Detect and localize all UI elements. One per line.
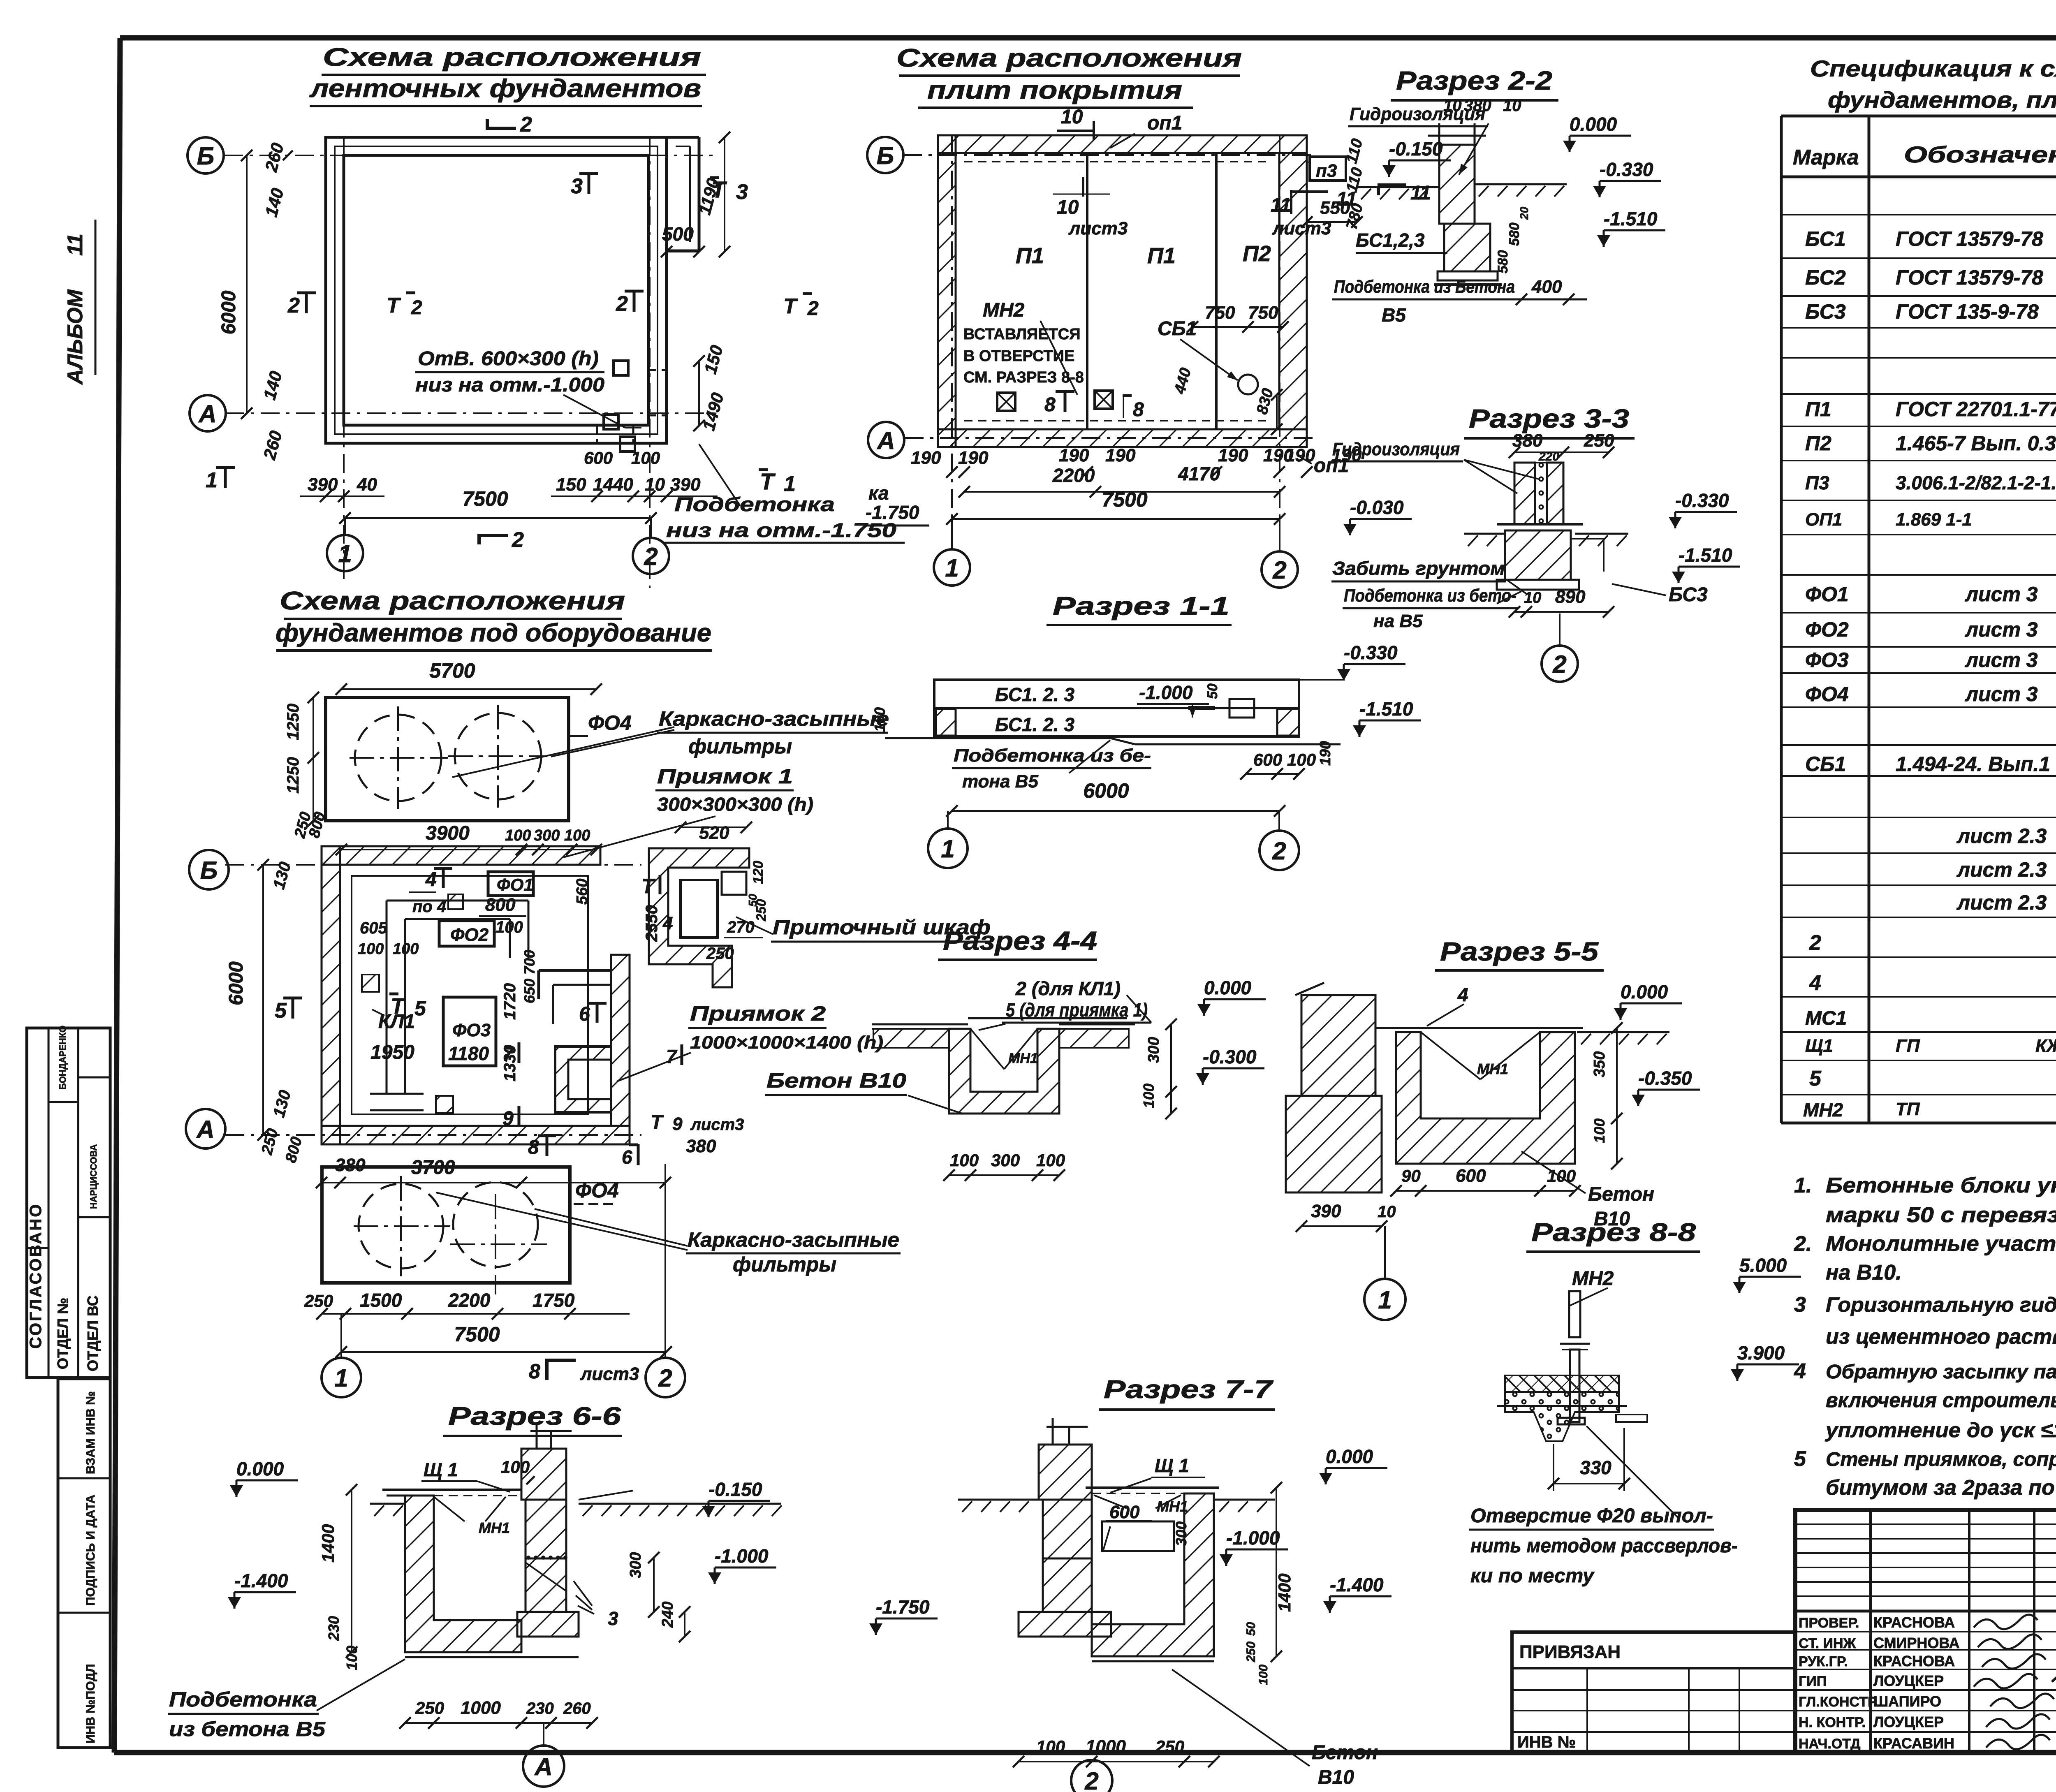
plan3 axis lines [225,865,641,1135]
svg-text:300×300×300 (h): 300×300×300 (h) [657,794,813,815]
section7-7 beton label [1172,1669,1378,1788]
svg-text:1500: 1500 [360,1290,402,1311]
section8-8 slab [1497,1375,1647,1441]
svg-text:П1: П1 [1805,398,1831,421]
section8-8 bolt [1558,1291,1590,1424]
svg-text:Бетон: Бетон [1312,1742,1378,1764]
plan3 top dims [336,822,602,855]
svg-text:1: 1 [945,554,959,582]
svg-text:Т: Т [391,994,406,1019]
svg-text:Разрез 7-7: Разрез 7-7 [1104,1375,1273,1404]
svg-text:ФО4: ФО4 [1805,683,1849,706]
svg-text:1250: 1250 [284,757,302,794]
plan2 mh2 note [963,299,1084,395]
svg-text:ШАПИРО: ШАПИРО [1873,1693,1941,1710]
svg-text:КРАСАВИН: КРАСАВИН [1873,1735,1954,1752]
title: section 3-3 [1464,404,1635,438]
plan3 inner dims [358,879,591,1081]
svg-text:0.000: 0.000 [1570,113,1617,135]
svg-text:9: 9 [672,1114,683,1134]
plan3 kl1 label [372,1009,415,1033]
svg-text:СТ. ИНЖ: СТ. ИНЖ [1799,1636,1856,1651]
spec rows slabs [1805,363,2056,530]
svg-text:250: 250 [706,945,734,963]
svg-text:400: 400 [1531,277,1562,297]
svg-text:Бетон: Бетон [1588,1183,1654,1205]
svg-text:ФО1: ФО1 [497,875,533,894]
svg-text:оп1: оп1 [1147,112,1182,134]
filter label lower [436,1192,901,1276]
svg-text:по 4: по 4 [412,898,446,916]
svg-text:Подбетонка: Подбетонка [169,1688,317,1711]
plan2 dims 750 750 [1187,303,1289,333]
svg-text:10: 10 [1443,97,1462,115]
svg-text:100: 100 [1140,1084,1157,1108]
svg-text:7: 7 [502,1044,514,1065]
svg-text:Бетон В10: Бетон В10 [766,1069,906,1092]
axis circle 1 plan1 [327,535,363,571]
section1-1 podbetonka note [952,740,1151,792]
section3-3 levels [1343,490,1740,583]
svg-text:1400: 1400 [1275,1574,1294,1612]
svg-text:Т: Т [711,176,727,202]
svg-text:лист3: лист3 [1272,218,1331,238]
plan2 slab joints [956,153,1279,429]
svg-text:БС2: БС2 [1805,266,1846,289]
svg-text:А: А [196,1116,214,1143]
svg-text:11: 11 [1410,182,1431,204]
plan3 bottom dims [316,1135,716,1188]
section2-2 podbetonka [1332,277,1587,326]
svg-text:300: 300 [1145,1037,1162,1063]
album label [63,220,95,385]
svg-text:плит покрытия: плит покрытия [927,76,1182,104]
spec table grid [1781,116,2056,1123]
svg-text:250: 250 [1584,431,1614,451]
svg-text:Т: Т [387,294,401,317]
svg-text:лист3: лист3 [580,1364,639,1384]
svg-text:Стены приямков, соприкасающиес: Стены приямков, соприкасающиеся с грунто… [1826,1449,2056,1470]
svg-text:ГОСТ 22701.1-77: ГОСТ 22701.1-77 [1896,398,2056,421]
svg-text:Подбетонка из бе-: Подбетонка из бе- [954,746,1151,766]
svg-text:2.: 2. [1794,1232,1812,1256]
svg-text:100: 100 [343,1646,360,1670]
section2-2 column [1428,123,1502,285]
svg-text:Забить грунтом: Забить грунтом [1332,558,1505,579]
section5-5 dims [1296,1166,1581,1232]
svg-text:ФО3: ФО3 [452,1020,491,1040]
plan3 channel KL1 [370,901,528,1110]
svg-text:-0.150: -0.150 [1389,138,1443,160]
section8-8 note [1469,1426,1738,1587]
plan2 note ka [864,482,929,526]
svg-text:А: А [198,400,216,428]
svg-text:Горизонтальную гидроизоляцию с: Горизонтальную гидроизоляцию стен выполн… [1826,1293,2056,1316]
title: scheme of roof slabs [896,44,1242,108]
section5-5 wall column [1286,983,1382,1192]
plan1 dims 140 260 bottom [259,369,286,462]
svg-text:КЖИ Щ1: КЖИ Щ1 [2035,1036,2056,1056]
svg-text:600: 600 [1109,1502,1140,1522]
svg-text:ленточных фундаментов: ленточных фундаментов [309,74,701,103]
section4-4 notes [979,978,1151,1030]
svg-text:Приямок 1: Приямок 1 [657,765,793,788]
section6-6 wall [517,1422,579,1637]
axis circle B plan2 [867,137,903,173]
svg-text:Н. КОНТР.: Н. КОНТР. [1799,1715,1866,1730]
svg-text:100: 100 [501,1457,530,1477]
section8-8 mn2 label [1570,1268,1614,1306]
title: section 2-2 [1391,66,1558,100]
svg-text:П3: П3 [1805,472,1829,493]
svg-text:1000: 1000 [461,1698,501,1718]
svg-text:ФО2: ФО2 [450,925,489,945]
svg-text:580: 580 [1495,250,1511,273]
svg-text:фильтры: фильтры [733,1253,836,1276]
svg-text:3: 3 [608,1608,618,1629]
svg-text:Щ 1: Щ 1 [424,1459,458,1480]
svg-text:4: 4 [1457,984,1468,1005]
plan2 anchor squares [997,391,1113,411]
svg-text:100: 100 [358,940,384,958]
section3-3 labels [1331,558,1708,631]
plan3 section marks [275,868,744,1134]
svg-text:низ на отм.-1.000: низ на отм.-1.000 [415,374,604,396]
title block grid [1795,1510,2056,1753]
plan3 partition right [539,970,611,1024]
svg-text:МС1: МС1 [1805,1007,1847,1029]
plan3 walls [322,846,630,1144]
plan3 left dims [225,810,329,1165]
svg-text:Схема расположения: Схема расположения [896,44,1242,72]
svg-text:250: 250 [1244,1642,1258,1662]
section4-4 ground [872,1018,1135,1048]
svg-text:ИНВ №ПОДЛ: ИНВ №ПОДЛ [84,1664,97,1743]
svg-text:100: 100 [1287,750,1316,769]
svg-text:2550: 2550 [643,905,661,942]
svg-text:8: 8 [1133,399,1144,421]
notes list [1794,1174,2056,1500]
axis circle A plan3 [186,1109,225,1148]
svg-text:1440: 1440 [593,475,633,495]
svg-text:4: 4 [425,869,437,891]
svg-text:260: 260 [563,1699,591,1718]
svg-text:-1.000: -1.000 [1226,1527,1280,1549]
supply cabinet dims [643,822,769,963]
svg-text:330: 330 [1580,1457,1611,1478]
svg-text:100: 100 [564,827,590,844]
svg-text:600: 600 [1253,750,1282,769]
svg-text:7500: 7500 [462,487,508,510]
svg-text:-0.330: -0.330 [1600,159,1653,180]
svg-text:230: 230 [325,1616,342,1641]
svg-text:10: 10 [1524,589,1541,607]
axis circle B plan1 [188,137,224,174]
svg-text:Бетонные блоки укладывать на ц: Бетонные блоки укладывать на цементном р… [1826,1174,2056,1197]
svg-text:ПРОВЕР.: ПРОВЕР. [1799,1615,1859,1631]
svg-text:50: 50 [1244,1622,1258,1636]
spec rows equipment foundations [1805,536,2056,706]
svg-text:0.000: 0.000 [1326,1446,1373,1467]
svg-text:7: 7 [666,1046,678,1067]
svg-text:лист 3: лист 3 [1965,683,2038,706]
plan1 walls [326,137,699,443]
plan1 dims 140 260 top [261,141,293,219]
plan1 dim 6000 left [218,150,252,419]
svg-text:-0.350: -0.350 [1638,1067,1692,1089]
axis circle 1 s55 [1364,1226,1405,1320]
svg-text:7500: 7500 [1102,488,1147,511]
svg-text:40: 40 [357,475,377,495]
svg-text:на В10.: на В10. [1826,1261,1902,1285]
section4-4 levels [1140,977,1266,1119]
svg-text:МН1: МН1 [1477,1060,1508,1077]
plan1 label T3 [710,176,748,204]
svg-text:1: 1 [1378,1286,1392,1314]
svg-text:0.000: 0.000 [236,1458,284,1479]
svg-text:-0.300: -0.300 [1203,1046,1257,1067]
svg-text:НАЧ.ОТД: НАЧ.ОТД [1799,1736,1860,1752]
axis circle 2 s77 [1071,1760,1112,1792]
svg-text:ОТДЕЛ ВС: ОТДЕЛ ВС [84,1295,101,1371]
spec row mn2 [1803,1099,2056,1122]
plan1 dims 390 40 [300,475,384,502]
filter slab lower [322,1167,619,1294]
svg-text:1750: 1750 [533,1290,575,1311]
svg-text:9: 9 [502,1108,514,1130]
svg-text:ОтВ. 600×300 (h): ОтВ. 600×300 (h) [418,348,599,370]
svg-text:лист3: лист3 [690,1116,744,1134]
plan2 mark 11 list3 [1271,188,1357,238]
svg-text:ФО3: ФО3 [1805,648,1849,671]
svg-text:ки по месту: ки по месту [1470,1565,1595,1587]
svg-text:2: 2 [512,528,524,552]
svg-text:1950: 1950 [370,1042,414,1063]
svg-text:150: 150 [556,475,586,495]
svg-text:10: 10 [1503,97,1521,115]
svg-text:Т: Т [760,468,776,494]
svg-text:100: 100 [495,918,523,936]
svg-text:300: 300 [991,1151,1020,1170]
svg-text:-1.510: -1.510 [1359,698,1413,720]
section2-2 dims top [1443,97,1521,115]
svg-text:БОНДАРЕНКО: БОНДАРЕНКО [58,1026,68,1090]
svg-text:фильтры: фильтры [688,735,792,758]
axis circle A plan1 [190,395,226,431]
svg-text:190: 190 [1285,445,1315,465]
svg-text:П2: П2 [1805,432,1831,455]
svg-text:ФО4: ФО4 [575,1179,619,1202]
spec rows glasses [1805,715,2056,776]
section2-2 t11 mark [1378,182,1431,204]
title: section 1-1 [1047,592,1232,625]
svg-text:АЛЬБОМ: АЛЬБОМ [63,289,87,385]
svg-text:ПРИВЯЗАН: ПРИВЯЗАН [1519,1642,1621,1662]
svg-text:5: 5 [1794,1447,1806,1471]
svg-text:520: 520 [699,823,729,843]
section8-8 dim 330 [1548,1428,1630,1491]
svg-text:низ на отм.-1.750: низ на отм.-1.750 [666,520,896,542]
svg-text:100: 100 [1036,1737,1065,1756]
svg-text:270: 270 [727,918,755,936]
svg-text:-1.400: -1.400 [234,1570,288,1591]
svg-text:6000: 6000 [218,290,240,334]
svg-text:190: 190 [911,448,941,468]
svg-text:П2: П2 [1243,241,1271,266]
svg-text:2: 2 [1272,556,1286,584]
svg-text:Т: Т [783,294,798,318]
plan1 dims 600 100 [584,448,660,468]
svg-text:100: 100 [631,448,660,468]
svg-text:560: 560 [574,879,591,905]
svg-text:ОП1: ОП1 [1805,509,1842,530]
filter slab upper [326,697,569,821]
svg-text:нить методом рассверлов-: нить методом рассверлов- [1470,1535,1738,1557]
svg-text:100: 100 [1036,1151,1065,1170]
title block roles [1799,1614,2056,1760]
section2-2 hydro label [1348,104,1489,175]
svg-text:Разрез 8-8: Разрез 8-8 [1531,1218,1696,1247]
svg-text:1: 1 [338,540,352,567]
svg-text:Схема расположения: Схема расположения [280,587,625,615]
section2-2 dims 580 [1495,206,1530,273]
svg-text:5: 5 [414,997,426,1020]
svg-text:А: А [534,1753,552,1780]
svg-text:П1: П1 [1016,243,1044,268]
svg-text:500: 500 [662,223,694,245]
svg-text:3900: 3900 [426,822,470,844]
plan2 dims 110 780 110 right [1343,137,1366,231]
svg-text:БС3: БС3 [1669,584,1708,606]
svg-text:лист 2.3: лист 2.3 [1956,891,2047,914]
svg-text:1: 1 [334,1364,348,1392]
svg-text:В5: В5 [1382,304,1406,326]
axis circle 2 s11 [1260,811,1299,870]
svg-text:-1.400: -1.400 [1330,1574,1384,1595]
title: section 4-4 [938,926,1097,960]
svg-text:Б: Б [200,857,218,884]
section7-7 labels [869,1446,1392,1685]
svg-text:фундаментов, плит покрытия: фундаментов, плит покрытия [1828,87,2056,113]
svg-text:11: 11 [1336,188,1357,210]
svg-text:230: 230 [526,1699,554,1718]
svg-text:КРАСНОВА: КРАСНОВА [1873,1614,1955,1631]
filter slab lower dims [304,1290,672,1358]
svg-text:на В5: на В5 [1373,611,1423,631]
spec table header [1793,123,2056,172]
svg-text:МН2: МН2 [1803,1099,1843,1121]
svg-text:4: 4 [1809,971,1821,995]
svg-text:2: 2 [1272,837,1286,865]
svg-text:750: 750 [1248,303,1278,323]
section1-1 slab [885,680,1341,744]
svg-text:250: 250 [304,1291,333,1310]
section1-1 texts [995,682,1220,735]
svg-text:МН1: МН1 [479,1519,510,1536]
title: scheme of equipment foundations [276,587,712,651]
section7-7 wall [1019,1418,1111,1637]
section6-6 podbetonka [168,1659,405,1741]
plan2 p3 box [1301,157,1363,228]
plan1 note podbetonka [664,444,905,543]
beton b10 label plan3 [765,1069,907,1095]
title: section 6-6 [443,1402,622,1436]
title: section 5-5 [1435,937,1604,970]
plan1 label 1T bottom [206,467,235,492]
svg-text:Б: Б [877,142,894,169]
svg-text:ГОСТ 135-9-78: ГОСТ 135-9-78 [1896,300,2039,323]
section mark 2 bottom plan1 [479,528,524,552]
svg-text:0.000: 0.000 [1621,981,1668,1003]
svg-text:ВЗАМ ИНВ №: ВЗАМ ИНВ № [84,1391,97,1474]
axis circle 1 s11 [928,811,968,868]
svg-text:НАРЦИССОВА: НАРЦИССОВА [88,1144,99,1209]
svg-text:3.900: 3.900 [1737,1342,1785,1364]
section mark 2 top [487,113,532,137]
plan1 dim 7500 [339,487,657,539]
svg-text:250: 250 [1155,1737,1184,1756]
plan3 hatch crosses [362,894,463,1113]
svg-text:2200: 2200 [448,1290,491,1311]
svg-text:Т: Т [651,1111,664,1133]
section2-2 levels [1357,113,1665,247]
plan2 walls hatched [938,135,1307,447]
svg-text:СБ1: СБ1 [1805,752,1846,776]
svg-text:из бетона В5: из бетона В5 [169,1718,326,1741]
svg-text:600: 600 [1456,1166,1486,1186]
svg-text:700: 700 [521,950,538,975]
svg-text:3: 3 [571,174,583,198]
mark 8 list3 [529,1359,639,1384]
svg-text:лист3: лист3 [1068,218,1128,238]
svg-text:лист 2.3: лист 2.3 [1956,824,2047,847]
section5-5 levels [1591,981,1700,1169]
svg-text:20: 20 [1518,206,1530,220]
svg-text:МН1: МН1 [1157,1498,1188,1515]
svg-text:300: 300 [1173,1521,1190,1546]
svg-text:2: 2 [1552,651,1566,678]
svg-text:А: А [876,427,895,454]
svg-text:1250: 1250 [284,704,302,740]
svg-text:марки 50 с перевязкой швов не: марки 50 с перевязкой швов не менее 300м… [1826,1203,2056,1227]
svg-text:1400: 1400 [318,1524,338,1563]
svg-text:3: 3 [736,180,748,204]
svg-text:100: 100 [1591,1118,1608,1143]
svg-text:1: 1 [206,468,218,492]
plan2 dims 2200 4170 [959,463,1285,498]
svg-text:750: 750 [1205,303,1235,323]
plan3 fo boxes [439,872,533,1066]
section5-5 beton label [1521,1151,1654,1230]
attached box [1512,1632,1795,1753]
svg-text:100: 100 [871,707,888,732]
svg-text:600: 600 [584,448,613,468]
svg-text:250: 250 [415,1698,444,1718]
svg-text:РУК.ГР.: РУК.ГР. [1799,1654,1848,1669]
svg-text:БС1,2,3: БС1,2,3 [1356,229,1425,251]
svg-text:ОТДЕЛ №: ОТДЕЛ № [54,1298,71,1369]
svg-text:ЛОУЦКЕР: ЛОУЦКЕР [1873,1713,1944,1730]
svg-text:100: 100 [505,827,531,844]
svg-text:СМИРНОВА: СМИРНОВА [1873,1635,1960,1651]
svg-text:2: 2 [616,292,628,316]
section1-1 levels [871,642,1421,766]
svg-text:605: 605 [360,919,387,937]
svg-text:ГОСТ 13579-78: ГОСТ 13579-78 [1896,227,2043,250]
plan1 label T1 bottom [759,468,796,496]
svg-text:2: 2 [520,113,532,137]
svg-text:ФО1: ФО1 [1805,583,1849,606]
